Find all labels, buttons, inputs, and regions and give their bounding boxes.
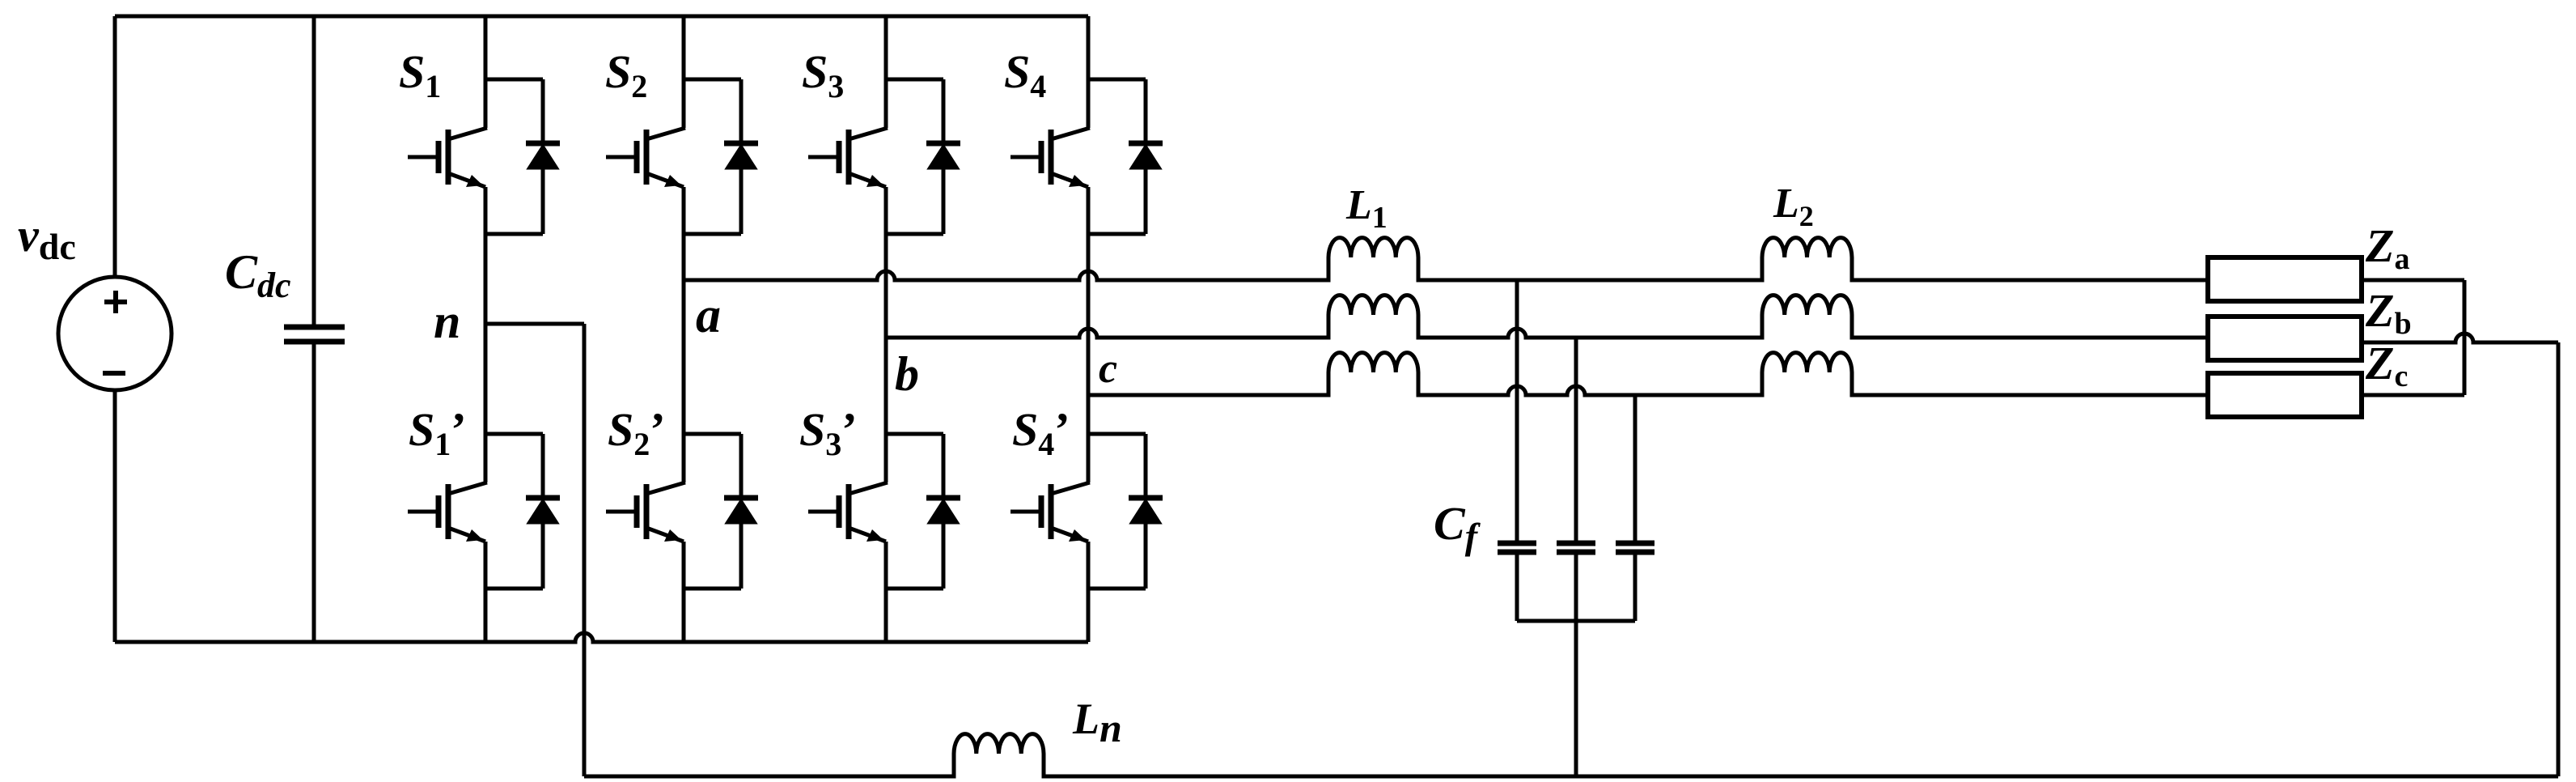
load Zc resistor box <box>2208 373 2362 417</box>
wire neutral vertical (crosses bottom rail) <box>583 324 587 776</box>
svg-text:c: c <box>1099 346 1117 392</box>
wire leg 2 middle <box>682 187 686 482</box>
wire phase b with L1/L2 coils <box>886 295 2208 338</box>
diode of S2&#8242; <box>724 434 758 589</box>
diode of S3 <box>926 79 960 234</box>
wire right return vertical <box>2557 342 2561 776</box>
capacitor Cf phase c <box>1616 395 1654 621</box>
wire Cdc top lead <box>312 16 316 325</box>
wire Za output to tie <box>2362 278 2464 283</box>
transistor S3 <box>808 79 943 234</box>
capacitor Cdc <box>284 327 345 342</box>
wire top DC rail <box>115 15 1088 19</box>
wire Za-Zc tie vertical <box>2463 280 2467 395</box>
transistor S2&#8242; <box>606 434 741 589</box>
diode of S3&#8242; <box>926 434 960 589</box>
wire phase a with L1/L2 coils <box>684 238 2208 280</box>
wire Cdc bottom lead <box>312 344 316 642</box>
wire leg 3 middle <box>884 187 888 482</box>
transistor S4 <box>1010 79 1146 234</box>
diode of S1 <box>526 79 560 234</box>
wire leg 1 middle <box>484 187 488 482</box>
wire leg 3 upper collector <box>884 16 888 128</box>
diode of S4&#8242; <box>1129 434 1163 589</box>
wire leg 2 upper collector <box>682 16 686 128</box>
wire Vdc positive lead <box>113 16 117 277</box>
diode of S4 <box>1129 79 1163 234</box>
wire Zb return (hops over tie) <box>2362 334 2558 342</box>
wire leg 4 lower emitter <box>1087 542 1091 642</box>
load Za resistor box <box>2208 257 2362 301</box>
transistor S4&#8242; <box>1010 434 1146 589</box>
wire Cf common bus <box>1517 619 1635 623</box>
transistor S3&#8242; <box>808 434 943 589</box>
wire leg 4 middle <box>1087 187 1091 482</box>
wire leg 1 upper collector <box>484 16 488 128</box>
wire phase c with L1/L2 coils <box>1088 353 2208 395</box>
capacitor Cf phase a <box>1498 280 1536 621</box>
wire Vdc negative lead <box>113 390 117 642</box>
wire Zc output to tie <box>2362 393 2464 397</box>
transistor S1&#8242; <box>408 434 543 589</box>
wire bottom DC rail (hops over neutral) <box>115 633 1088 642</box>
voltage source Vdc <box>58 277 172 390</box>
wire node n to neutral corner <box>485 322 584 326</box>
svg-text:a: a <box>696 288 721 343</box>
load Zb resistor box <box>2208 317 2362 360</box>
svg-text:n: n <box>434 295 460 348</box>
wire leg 4 upper collector <box>1087 16 1091 128</box>
wire leg 3 lower emitter <box>884 542 888 642</box>
capacitor Cf phase b <box>1557 338 1595 621</box>
diode of S1&#8242; <box>526 434 560 589</box>
wire Cf bus to neutral <box>1574 621 1578 776</box>
wire leg 2 lower emitter <box>682 542 686 642</box>
diode of S2 <box>724 79 758 234</box>
svg-text:b: b <box>895 347 919 401</box>
wire bottom neutral with Ln coil <box>584 734 2558 776</box>
wire leg 1 lower emitter <box>484 542 488 642</box>
transistor S1 <box>408 79 543 234</box>
transistor S2 <box>606 79 741 234</box>
